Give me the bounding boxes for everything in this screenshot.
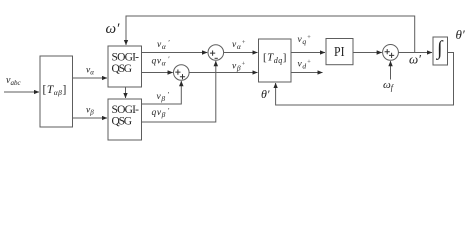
label qv_alpha_prime (152, 55, 170, 68)
svg-text:SOGI-: SOGI- (112, 52, 140, 64)
wire v_beta_plus (189, 72, 257, 74)
label omega-prime top left (106, 21, 121, 37)
svg-text:θ′: θ′ (261, 87, 270, 101)
svg-text:ω′: ω′ (409, 52, 421, 67)
svg-text:vβ′: vβ′ (157, 90, 170, 103)
wire qv_beta_prime (142, 61, 216, 122)
label SOGI-QSG upper text (112, 52, 140, 75)
block PI controller (326, 39, 353, 65)
wire v_alpha_plus (224, 52, 258, 54)
svg-text:vabc: vabc (6, 75, 21, 87)
svg-text:vq+: vq+ (298, 34, 312, 46)
sign plus bottom in S2 (180, 74, 185, 79)
label [T_alphabeta] inside box (43, 84, 67, 97)
wire omega-prime feedback top (126, 16, 415, 53)
svg-text:vβ: vβ (86, 106, 94, 117)
wire theta-prime feedback (276, 53, 454, 106)
svg-text:PI: PI (334, 45, 345, 60)
svg-text:ω′: ω′ (106, 21, 121, 37)
svg-text:vβ+: vβ+ (232, 61, 246, 73)
wire omega-prime to integrator (398, 52, 432, 54)
wire v_alpha (73, 77, 108, 79)
label v_d_plus (298, 59, 312, 71)
svg-text:θ′: θ′ (456, 27, 465, 42)
svg-text:ωf: ωf (383, 79, 395, 92)
label qv_beta_prime (152, 106, 170, 119)
svg-text:vα′: vα′ (157, 38, 170, 51)
label [T_dq] inside box (263, 51, 287, 65)
wire v_beta_prime (142, 81, 182, 104)
block SOGI-QSG lower (108, 99, 142, 140)
svg-text:vα+: vα+ (232, 39, 246, 51)
block T_dq transform (259, 39, 292, 82)
svg-text:vd+: vd+ (298, 59, 312, 71)
svg-text:QSG: QSG (112, 116, 132, 128)
wire v_beta (73, 117, 108, 119)
wire omega_f feedforward (390, 61, 392, 79)
svg-text:qvβ′: qvβ′ (152, 106, 170, 119)
wire v_d_plus dead end (291, 72, 323, 74)
block integrator (433, 37, 448, 65)
summing junction S3 plus-plus (383, 45, 399, 61)
summing junction S2 plus-plus (174, 65, 190, 81)
label theta-prime at T_dq bottom (261, 87, 270, 101)
sign minus in S1 (215, 57, 218, 59)
label v_beta_plus (232, 61, 246, 73)
label v_q_plus (298, 34, 312, 46)
label SOGI-QSG lower text (112, 104, 140, 127)
svg-text:QSG: QSG (112, 63, 132, 75)
label v_alpha_plus (232, 39, 246, 51)
sign plus left in S2 (175, 70, 180, 75)
wire omega-prime passthrough (125, 87, 127, 98)
wire v_abc input (4, 91, 39, 93)
label v_alpha (86, 66, 94, 77)
wire v_alpha_prime (142, 52, 208, 54)
svg-text:SOGI-: SOGI- (112, 104, 140, 116)
wire PI to summing junction S3 (353, 52, 382, 54)
label v_beta_prime (157, 90, 170, 103)
sign plus in S1 (210, 51, 215, 56)
sign plus bottom in S3 (389, 53, 394, 58)
summing junction S1 plus-minus (208, 45, 224, 61)
block SOGI-QSG upper (108, 46, 142, 87)
label theta-prime output (456, 27, 465, 42)
wire v_q_plus (291, 52, 325, 54)
sign plus left in S3 (385, 49, 390, 54)
label v_beta (86, 106, 94, 117)
label PI inside box (334, 45, 345, 60)
label v_alpha_prime (157, 38, 170, 51)
label integral sign inside box (435, 38, 444, 61)
label v_abc (6, 75, 21, 87)
wire qv_alpha_prime (142, 72, 173, 74)
label omega_f (383, 79, 395, 92)
block T_alphabeta transform (40, 56, 73, 127)
svg-text:vα: vα (86, 66, 94, 77)
label omega-prime after S3 (409, 52, 421, 67)
svg-text:qvα′: qvα′ (152, 55, 170, 68)
